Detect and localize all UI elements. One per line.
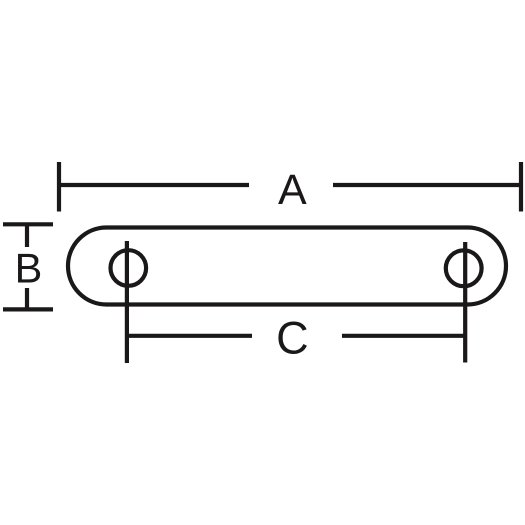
dimension A line left segment	[59, 183, 249, 187]
dimension B bottom tick	[3, 307, 53, 311]
svg-text:B: B	[15, 245, 43, 292]
right hole extension line	[463, 242, 467, 363]
dimension C line left segment	[127, 334, 252, 338]
dimension A left tick	[57, 162, 61, 212]
plate outline (stadium slot)	[68, 228, 506, 305]
dimension A right tick	[519, 162, 523, 212]
dimension C line right segment	[342, 334, 465, 338]
svg-text:C: C	[276, 313, 309, 364]
dimension A line right segment	[333, 183, 521, 187]
dimension B line upper segment	[25, 224, 29, 247]
right hole	[446, 250, 482, 286]
dimension B top tick	[3, 222, 53, 226]
left hole	[111, 250, 147, 286]
dimension B line lower segment	[25, 288, 29, 309]
svg-text:A: A	[278, 166, 307, 214]
left hole extension line	[125, 241, 129, 363]
